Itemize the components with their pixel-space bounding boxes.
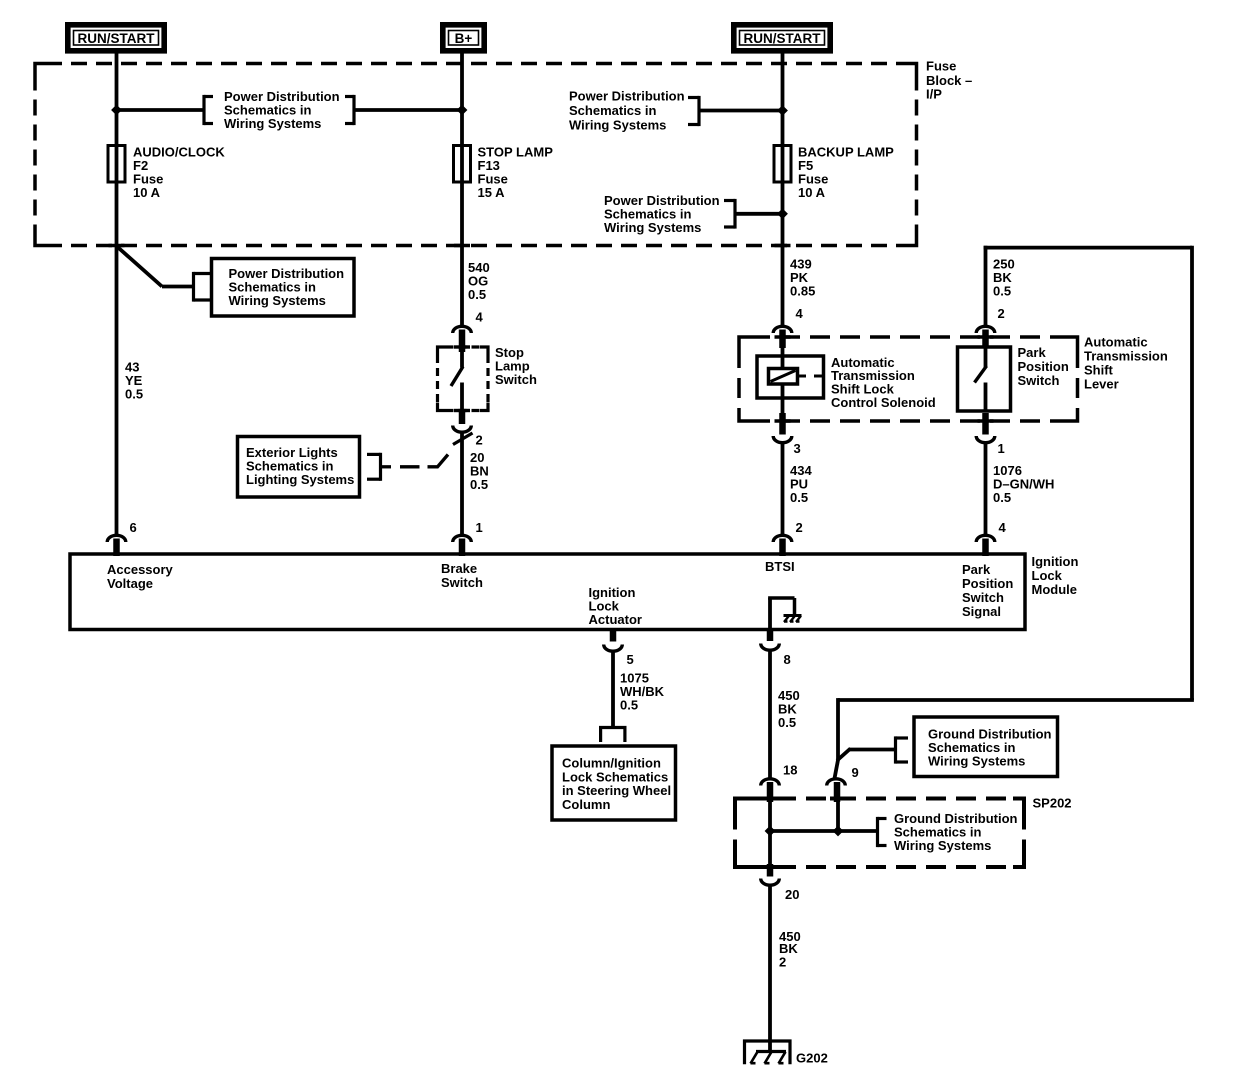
svg-text:Position: Position — [1018, 359, 1069, 374]
park position switch box — [958, 347, 1011, 411]
ground G202 symbol — [745, 1041, 791, 1064]
destination bracket to column box — [599, 726, 627, 729]
wire: park switch to ignition lock module (1076 D-GN/WH 0.5) — [984, 442, 988, 536]
connector pin 2 (stop lamp switch out) — [459, 411, 466, 425]
svg-text:Actuator: Actuator — [589, 612, 642, 627]
reference box: Exterior Lights Schematics in Lighting Systems — [238, 437, 360, 498]
svg-text:Module: Module — [1032, 582, 1078, 597]
reference box: Ground Distribution Schematics in Wiring Systems — [894, 736, 897, 763]
svg-text:6: 6 — [130, 520, 137, 535]
fuse F2 AUDIO/CLOCK 10A — [108, 146, 125, 183]
junction nodes in SP202 — [765, 826, 776, 837]
svg-text:10 A: 10 A — [798, 185, 826, 200]
svg-text:Switch: Switch — [495, 372, 537, 387]
svg-text:Transmission: Transmission — [1084, 349, 1168, 364]
ignition lock module box — [70, 554, 1025, 630]
wire: loop top from park switch column to right edge (250 BK) — [984, 246, 988, 328]
automatic transmission shift lever dashed box — [750, 335, 1067, 339]
reference: Power Distribution Schematics in Wiring Systems (top right) — [697, 96, 700, 126]
svg-text:Wiring Systems: Wiring Systems — [894, 838, 991, 853]
svg-text:Brake: Brake — [441, 561, 477, 576]
svg-text:Switch: Switch — [1018, 373, 1060, 388]
svg-text:Control Solenoid: Control Solenoid — [831, 395, 936, 410]
park position switch contacts and blade — [984, 348, 988, 368]
wire: horizontal to Power Distribution ref (left) — [117, 108, 205, 112]
connector pin 4 (park position switch signal) — [976, 535, 995, 542]
svg-text:0.5: 0.5 — [993, 284, 1011, 299]
svg-text:Column: Column — [562, 797, 610, 812]
wire: loop drop to connector 9 — [836, 698, 840, 760]
reference box: Power Distribution Schematics in Wiring Systems — [192, 272, 195, 302]
svg-text:0.5: 0.5 — [470, 477, 488, 492]
svg-text:0.5: 0.5 — [125, 387, 143, 402]
connector pin 4 (stop lamp switch) — [453, 326, 472, 333]
power terminal RUN/START (left) — [68, 25, 164, 51]
svg-text:Signal: Signal — [962, 604, 1001, 619]
connector pin 8 (BTSI ground) — [767, 630, 774, 641]
svg-text:Switch: Switch — [441, 575, 483, 590]
wire: RUN/START down through fuse F5 (439 PK 0.85) — [781, 54, 785, 327]
stop lamp switch contacts and blade — [460, 352, 464, 368]
connector pin 1 (brake switch) — [453, 535, 472, 542]
connector pin 5 (ignition lock actuator) — [610, 629, 617, 642]
svg-text:G202: G202 — [796, 1051, 828, 1066]
svg-text:0.85: 0.85 — [790, 284, 815, 299]
junction node on wire 1 — [111, 105, 122, 116]
svg-text:Shift: Shift — [1084, 363, 1114, 378]
splice SP202 dashed box — [746, 797, 1013, 801]
connector pin 4 (ATSL solenoid) — [773, 326, 792, 333]
wire: ref 2 to wire 3 — [699, 109, 783, 113]
svg-text:Wiring Systems: Wiring Systems — [604, 220, 701, 235]
junction node on wire 3 (upper) — [777, 105, 788, 116]
fuse F13 STOP LAMP 15A — [454, 146, 471, 183]
svg-text:Wiring Systems: Wiring Systems — [928, 754, 1025, 769]
svg-text:Park: Park — [1018, 345, 1047, 360]
wire: connector 3 to BTSI (434 PU 0.5) — [781, 442, 785, 536]
svg-text:4: 4 — [476, 310, 484, 325]
connector pin 9 (ground distribution) — [827, 779, 846, 786]
connector pin 18 (splice SP202 in) — [761, 779, 780, 786]
fuse block I/P dashed box — [46, 62, 906, 66]
svg-text:9: 9 — [852, 765, 859, 780]
svg-text:4: 4 — [999, 520, 1007, 535]
connector pin 2 (park position switch) — [976, 326, 995, 333]
power terminal RUN/START (right) — [734, 25, 830, 51]
svg-text:Ignition: Ignition — [1032, 554, 1079, 569]
svg-text:1: 1 — [476, 520, 483, 535]
svg-text:5: 5 — [627, 652, 634, 667]
svg-text:Park: Park — [962, 562, 991, 577]
wire: stop lamp switch to brake switch (20 BN 0.5) — [460, 432, 464, 536]
svg-text:0.5: 0.5 — [790, 490, 808, 505]
svg-text:20: 20 — [785, 887, 799, 902]
wire: solenoid to connector 3 — [781, 383, 785, 414]
ATSL control solenoid outer box — [781, 348, 785, 370]
connector pin 3 (ATSL solenoid out) — [779, 413, 786, 435]
wire: RUN/START down through fuse F2 to pin 6 (43 YE 0.5) — [115, 54, 119, 329]
svg-text:0.5: 0.5 — [778, 715, 796, 730]
svg-text:Schematics in: Schematics in — [569, 103, 656, 118]
svg-text:Wiring Systems: Wiring Systems — [229, 293, 326, 308]
svg-text:0.5: 0.5 — [620, 698, 638, 713]
internal chassis ground symbol — [784, 614, 802, 617]
connector pin 6 (accessory voltage) — [107, 535, 126, 542]
svg-text:10 A: 10 A — [133, 185, 161, 200]
svg-text:8: 8 — [784, 652, 791, 667]
svg-text:Accessory: Accessory — [107, 562, 174, 577]
svg-text:2: 2 — [779, 955, 786, 970]
wire: loop bottom across to splice drop — [838, 698, 1194, 702]
wires inside splice SP202 — [768, 800, 772, 866]
junction node on wire 3 (lower) — [777, 208, 788, 219]
svg-text:0.5: 0.5 — [468, 287, 486, 302]
wire: diagonal from wire 1 to Power Distribution box — [117, 247, 162, 287]
svg-text:Switch: Switch — [962, 590, 1004, 605]
svg-text:RUN/START: RUN/START — [744, 31, 822, 46]
svg-text:Wiring Systems: Wiring Systems — [224, 116, 321, 131]
svg-text:15 A: 15 A — [478, 185, 506, 200]
svg-text:2: 2 — [476, 433, 483, 448]
junction node on wire 2 — [457, 105, 468, 116]
svg-text:BTSI: BTSI — [765, 559, 795, 574]
reference box: Column/Ignition Lock Schematics in Steering Wheel Column — [552, 746, 676, 820]
svg-text:Lock: Lock — [1032, 568, 1063, 583]
reference: Power Distribution Schematics in Wiring Systems (top left) — [202, 95, 205, 125]
svg-text:Lighting Systems: Lighting Systems — [246, 472, 354, 487]
connector pin 1 (park position switch out) — [982, 413, 989, 435]
solenoid coil — [769, 369, 798, 385]
reference: Power Distribution Schematics in Wiring Systems (middle) — [733, 199, 736, 229]
svg-text:Wiring Systems: Wiring Systems — [569, 118, 666, 133]
svg-text:I/P: I/P — [926, 87, 942, 102]
svg-text:Automatic: Automatic — [1084, 335, 1148, 350]
stop lamp switch dashed box — [446, 345, 481, 348]
power terminal B+ — [443, 25, 484, 51]
svg-text:1: 1 — [998, 441, 1005, 456]
svg-text:RUN/START: RUN/START — [78, 31, 156, 46]
wire: B+ down through fuse F13 to stop lamp switch (540 OG 0.5) — [460, 54, 464, 327]
svg-text:Power Distribution: Power Distribution — [569, 89, 685, 104]
wire: pin 5 to steering column (1075 WH/BK 0.5) — [611, 651, 615, 726]
svg-text:Fuse: Fuse — [926, 59, 956, 74]
wire crossing ticks at fuse block bottom edge — [109, 244, 125, 248]
wire: SP202 to ground G202 (450 BK 2) — [768, 885, 772, 1052]
svg-text:SP202: SP202 — [1033, 796, 1072, 811]
reference: Ground Distribution Schematics in Wiring Systems (in SP202) — [876, 817, 879, 847]
svg-text:3: 3 — [794, 441, 801, 456]
svg-text:Voltage: Voltage — [107, 576, 153, 591]
wire: horizontal from Power Distribution ref to wire 2 — [354, 108, 462, 112]
svg-text:0.5: 0.5 — [993, 490, 1011, 505]
svg-text:4: 4 — [796, 306, 804, 321]
wire: pin 8 to splice SP202 (450 BK 0.5) — [768, 650, 772, 780]
internal BTSI ground circuit — [768, 598, 772, 630]
svg-text:2: 2 — [796, 520, 803, 535]
svg-text:Position: Position — [962, 576, 1013, 591]
svg-text:18: 18 — [783, 763, 797, 778]
connector pin 20 (splice out) — [767, 864, 774, 877]
dashed leader to connector 2 — [381, 465, 392, 468]
wire: ref 3 to wire 3 — [735, 212, 783, 216]
svg-text:Lever: Lever — [1084, 377, 1119, 392]
svg-text:2: 2 — [998, 306, 1005, 321]
fuse F5 BACKUP LAMP 10A — [774, 146, 791, 183]
svg-text:B+: B+ — [455, 31, 473, 46]
connector pin 2 (BTSI) — [773, 535, 792, 542]
